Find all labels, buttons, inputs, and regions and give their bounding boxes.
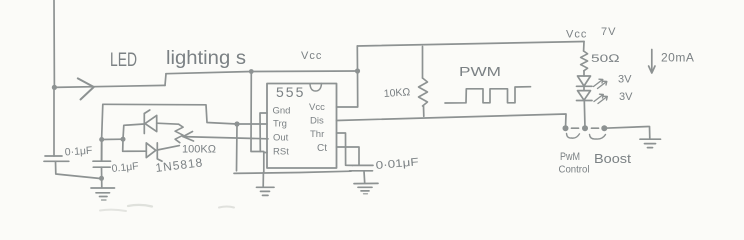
LED D4 arrows	[594, 94, 607, 103]
svg-text:3V: 3V	[619, 91, 633, 103]
ground below 555	[262, 173, 264, 188]
label notch U	[310, 84, 322, 92]
capacitor C2 0.1uF plates	[93, 160, 111, 162]
wire Vcc net horizontal	[166, 71, 358, 74]
svg-text:LED: LED	[110, 50, 137, 71]
svg-text:1N5818: 1N5818	[155, 155, 204, 175]
wire arrowhead	[78, 78, 94, 99]
resistor 10K lead bottom	[423, 106, 425, 116]
wire to LED1	[583, 71, 585, 76]
wire Dis net long	[337, 114, 567, 128]
svg-text:100KΩ: 100KΩ	[182, 144, 216, 156]
wire step up	[165, 74, 166, 86]
diode D1 triangle	[145, 115, 157, 131]
node Vcc riser junction	[355, 68, 360, 73]
wire input arrow feed	[54, 85, 165, 87]
waveform PWM square wave	[445, 87, 531, 103]
wire upper branch right	[157, 123, 179, 124]
wire 555 Vcc pin	[337, 71, 358, 107]
wire C2 bottom lead	[101, 167, 103, 188]
potentiometer wiper arrow	[183, 132, 194, 142]
svg-text:Boost: Boost	[594, 151, 631, 166]
wire node link	[102, 138, 123, 140]
svg-text:0.1μF: 0.1μF	[111, 160, 139, 175]
svg-text:Vcc: Vcc	[301, 50, 322, 62]
wire Out net	[183, 137, 268, 139]
node Vcc tap left	[249, 69, 254, 74]
svg-text:RSt: RSt	[273, 147, 289, 158]
node cap tap	[99, 137, 104, 142]
svg-text:7V: 7V	[601, 26, 616, 38]
diode D1 cathode bar	[143, 114, 145, 134]
wire C2 top lead	[101, 140, 103, 162]
ground bottom left	[91, 187, 115, 189]
wire upper diode branch left	[123, 124, 144, 139]
bracket PWM pair	[567, 134, 580, 139]
svg-text:Trg: Trg	[273, 119, 287, 130]
resistor 50ohm	[581, 51, 588, 71]
node dot3	[601, 125, 607, 131]
wire C1 bottom	[56, 161, 102, 178]
wire RSt stub	[264, 152, 267, 154]
wire jumper dash2	[592, 127, 599, 129]
node C2 ground tie	[99, 176, 104, 181]
wire Trg top segment	[103, 104, 267, 124]
node Trg junction	[234, 121, 239, 126]
wire lower branch right	[157, 146, 179, 150]
svg-text:10KΩ: 10KΩ	[383, 86, 410, 100]
capacitor C1 0.1uF plates	[45, 155, 62, 157]
bracket Boost pair	[590, 135, 606, 140]
wire Trg junction down	[236, 124, 239, 171]
node PWM control dot1	[563, 125, 569, 131]
wire C1 to rail	[53, 87, 55, 156]
svg-text:50Ω: 50Ω	[591, 53, 621, 65]
wire Vcc tap down	[251, 72, 264, 173]
capacitor C3 0.01uF	[353, 164, 374, 166]
potentiometer 100K body	[175, 124, 183, 143]
svg-text:3V: 3V	[618, 74, 632, 86]
resistor 50ohm lead	[583, 42, 585, 52]
LED D3	[578, 76, 591, 86]
wire top rail to LED string	[357, 42, 584, 47]
wire row to ground	[604, 127, 648, 129]
svg-text:Thr: Thr	[310, 129, 324, 140]
current arrow 20mA	[651, 50, 653, 72]
svg-text:Vcc: Vcc	[309, 102, 325, 113]
wire left input rail	[53, 0, 55, 87]
LED D4	[578, 91, 591, 101]
wire LED string bottom	[583, 101, 586, 129]
svg-text:Vcc: Vcc	[566, 29, 587, 41]
svg-text:PwM: PwM	[560, 151, 580, 163]
wire jumper dash1	[572, 127, 579, 129]
svg-text:Control: Control	[559, 164, 590, 176]
wire Thr pin	[337, 133, 353, 165]
resistor 10K lead top	[422, 47, 424, 79]
ground below C3	[354, 182, 378, 184]
wire Gnd pin	[260, 113, 267, 152]
node dot2	[582, 125, 588, 131]
wire Ct pin	[337, 147, 360, 165]
smudge marks	[128, 205, 152, 207]
resistor 10K	[419, 78, 428, 106]
node diode split	[121, 137, 126, 142]
op-amp U1 555 timer box	[267, 84, 337, 169]
svg-text:Ct: Ct	[317, 143, 327, 154]
LED D3 arrows	[594, 79, 607, 88]
svg-text:0·01μF: 0·01μF	[375, 156, 419, 172]
svg-text:lighting s: lighting s	[166, 48, 246, 69]
wire bottom tie to C3 ground	[234, 171, 351, 173]
wire Vcc riser	[356, 46, 358, 71]
svg-text:Gnd: Gnd	[273, 106, 291, 117]
wire lower diode branch left	[123, 139, 147, 151]
svg-text:20mA: 20mA	[661, 51, 694, 65]
svg-text:555: 555	[276, 84, 305, 100]
svg-text:Dis: Dis	[310, 116, 324, 127]
wire diode network left drop	[102, 104, 103, 161]
ground right	[649, 127, 651, 140]
svg-text:0·1μF: 0·1μF	[64, 145, 92, 159]
wire LED gap	[583, 86, 585, 90]
svg-text:Out: Out	[273, 133, 289, 144]
node input junction	[52, 85, 57, 90]
svg-text:PWM: PWM	[459, 65, 501, 79]
diode D2 cathode bar	[157, 143, 162, 161]
diode D2 triangle	[146, 143, 156, 158]
